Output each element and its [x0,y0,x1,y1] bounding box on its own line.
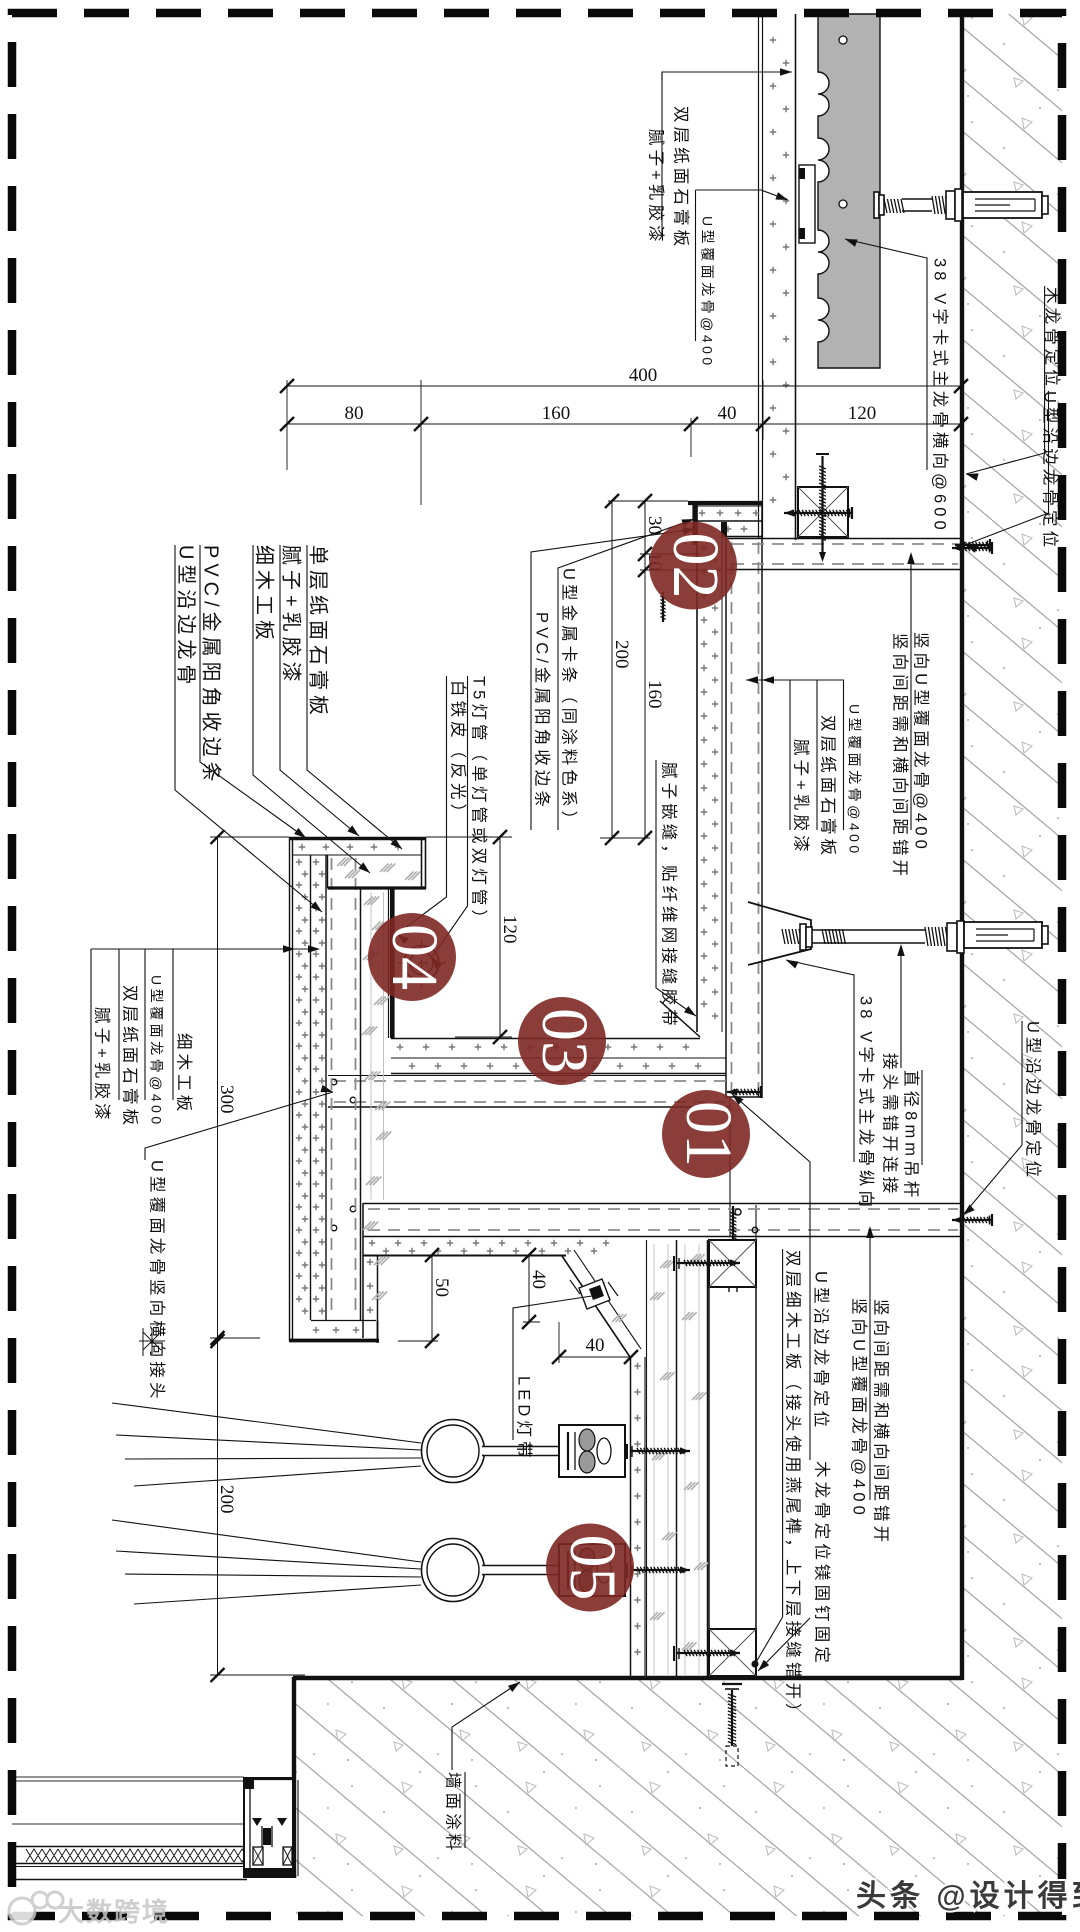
wood block lower (X-braced) [709,1629,756,1676]
svg-text:02: 02 [659,533,732,599]
svg-text:01: 01 [672,1101,745,1167]
label fan top-left: U-channel edge [175,545,322,912]
spotlight 2 screw [626,1563,628,1578]
step cap - thick edge (U metal trim) [688,501,763,505]
long screw from 01 band into block [732,1206,734,1284]
svg-text:双层纸面石膏板: 双层纸面石膏板 [121,985,141,1129]
LED strip fixture on chamfer [579,1279,610,1309]
upper horizontal furring band [726,538,962,540]
svg-text:木龙骨定位镁固钉固定: 木龙骨定位镁固钉固定 [813,1461,832,1667]
svg-text:PVC/金属阳角收边条: PVC/金属阳角收边条 [200,545,223,787]
svg-text:双层细木工板（接头使用燕尾榫，上下层接缝错开）: 双层细木工板（接头使用燕尾榫，上下层接缝错开） [784,1250,803,1724]
light rays 2 [112,1520,421,1562]
svg-text:T5灯管（单灯管或双灯管）: T5灯管（单灯管或双灯管） [470,676,489,930]
adjustable spotlight 1 [422,1420,485,1483]
label fan: single gypsum board [307,545,402,849]
svg-text:U型覆面龙骨@400: U型覆面龙骨@400 [700,216,716,369]
label: LED strip [513,1296,592,1432]
fascia gypsum layers [310,855,312,1320]
svg-text:头条 @设计得到: 头条 @设计得到 [856,1880,1080,1913]
label: 38 V-type carrier @600 [845,239,927,470]
svg-text:细木工板: 细木工板 [253,545,276,645]
lower box wood boards [646,1240,648,1678]
fascia top cap [289,837,426,841]
svg-text:PVC/金属阳角收边条: PVC/金属阳角收边条 [533,612,552,811]
window mullion profile [244,1778,293,1877]
svg-text:竖向U型覆面龙骨@400: 竖向U型覆面龙骨@400 [850,1298,869,1519]
bottom wall left edge line [292,1677,296,1878]
dimension 300 (fascia height) [217,837,219,1338]
V-clamp hanger bracket [748,902,811,965]
38 carrier channel - gray strip with notched edge [818,14,880,368]
hanger rod 8mm with nuts [782,929,802,944]
svg-text:白铁皮（反光）: 白铁皮（反光） [449,680,468,824]
furring band under cove bottom [328,1075,726,1077]
vertical screw through step block [816,453,829,455]
svg-text:大数跨境: 大数跨境 [58,1897,170,1927]
svg-text:直径8mm吊杆: 直径8mm吊杆 [902,1070,921,1201]
svg-text:竖向间距需和横向间距错开: 竖向间距需和横向间距错开 [891,633,910,880]
svg-text:U型金属卡条（同涂料色系）: U型金属卡条（同涂料色系） [560,568,579,831]
svg-text:LED灯带: LED灯带 [515,1376,534,1462]
dimension line 80/160/40/120 [287,423,961,425]
label fan: putty+latex paint [280,545,359,836]
svg-text:竖向U型覆面龙骨@400: 竖向U型覆面龙骨@400 [912,632,931,853]
expansion anchor (mid, into wall) [964,922,1042,948]
svg-text:墙面涂料: 墙面涂料 [444,1772,463,1854]
cove right wall gypsum boards [696,503,698,1032]
cove bottom gypsum boards [391,1038,700,1040]
label: wall paint [452,1682,520,1770]
label: putty joint + fiber mesh tape [656,760,696,1016]
spotlight 1 mounting bracket [559,1425,625,1477]
small screw under step cap [662,592,664,622]
svg-text:U型沿边龙骨: U型沿边龙骨 [175,545,198,689]
dimension line 400 (overall top) [287,385,961,387]
label fan: blockboard [253,545,370,873]
vertical joint lines at cove bottom right [729,1098,731,1237]
svg-text:200: 200 [216,1485,237,1514]
svg-text:U型沿边龙骨定位: U型沿边龙骨定位 [1041,391,1060,551]
window head lines [12,1776,244,1778]
svg-text:120: 120 [848,403,877,424]
screw fixing upper band to wall [952,547,992,549]
screw at cove wall bottom corner [727,1091,761,1093]
callout circle 02 [649,522,737,610]
svg-text:双层纸面石膏板: 双层纸面石膏板 [819,715,839,859]
label: U edge channel positioning (mid right) [1021,1021,1023,1145]
labels: fascia finish group (left) [91,948,318,950]
reflective metal sheet (white iron) [390,889,395,1038]
svg-text:竖向间距需和横向间距错开: 竖向间距需和横向间距错开 [872,1299,891,1546]
svg-text:03: 03 [528,1008,601,1074]
dimension extension lines (top) [286,380,288,470]
svg-text:300: 300 [216,1085,237,1114]
label: U furring channel @400 (top) [696,190,789,200]
svg-text:腻子+乳胶漆: 腻子+乳胶漆 [280,545,303,687]
screws into blocks [673,1256,675,1271]
labels: vertical U furring (01 band) [869,1232,871,1500]
label: double gypsum + putty (top) [662,72,792,80]
label: U furring vertical/horizontal joints (left) [145,1092,333,1160]
svg-text:120: 120 [499,915,520,944]
label: 8mm hanger rod + carrier longitudinal [786,960,854,1162]
label: wood grounds positioning (top right) [966,286,1045,474]
callout circle 05 [546,1524,634,1612]
svg-text:腻子+乳胶漆: 腻子+乳胶漆 [792,739,811,856]
cove wall furring dashes [731,542,733,1094]
svg-text:U型覆面龙骨@400: U型覆面龙骨@400 [149,975,165,1128]
T5 lamp symbol [404,946,439,981]
svg-text:U型沿边龙骨定位: U型沿边龙骨定位 [1024,1021,1043,1181]
dimension 40 (vertical at chamfer) [528,1255,530,1322]
mitred corner of cove bottom [660,1001,700,1037]
holes in carrier strip [839,36,847,44]
svg-text:40: 40 [528,1270,549,1289]
lamp star symbol [139,1328,165,1354]
wood block (X-braced) at step [798,487,848,537]
dimension 200 (below fascia) [217,1341,219,1675]
callout circle 03 [518,997,606,1085]
svg-text:腻子+乳胶漆: 腻子+乳胶漆 [647,129,666,246]
svg-text:40: 40 [586,1335,605,1356]
svg-text:腻子+乳胶漆: 腻子+乳胶漆 [93,1007,112,1124]
light rays 1 [112,1403,421,1443]
gypsum board under 01 band [363,1255,566,1257]
fascia outer face double line [289,837,291,1341]
svg-text:细木工板: 细木工板 [175,1033,194,1115]
svg-text:接头需错开连接: 接头需错开连接 [881,1053,900,1197]
label: U edge channel positioning (top right) [965,391,1049,545]
expansion anchor bolt (top, into wall) [884,199,904,213]
lower box gypsum band [630,1357,632,1678]
svg-text:400: 400 [629,365,658,386]
svg-text:160: 160 [644,680,665,709]
extension lines for step dims [608,500,688,502]
dimension 120 (cove depth) [499,837,501,1037]
svg-text:50: 50 [431,1278,452,1297]
callout circle 01 [662,1090,750,1178]
bottom wall top edge line [293,1676,963,1680]
spotlight 1 screw [626,1444,628,1459]
spotlight 2 mounting bracket [559,1544,625,1596]
svg-text:U型沿边龙骨定位: U型沿边龙骨定位 [812,1271,831,1431]
svg-text:单层纸面石膏板: 单层纸面石膏板 [307,545,330,720]
fascia wood board [360,889,362,1320]
concrete wall hatch (right vertical band and bottom wall) [296,14,1062,1916]
svg-text:腻子嵌缝，贴纤维网接缝胶带: 腻子嵌缝，贴纤维网接缝胶带 [660,762,679,1030]
vertical dimension chain 30/10/160 [644,501,646,838]
label: U edge channel + wood ground fixing [732,1094,810,1460]
fascia furring dashes [331,858,333,1318]
fascia top wood band [327,855,329,888]
svg-text:双层纸面石膏板: 双层纸面石膏板 [672,106,692,250]
vertical dimension chain 200 (step) [611,501,613,838]
trough lip at left end of 01 band [362,1203,364,1338]
label fan: PVC corner trim [200,545,306,838]
adjustable spotlight 2 [422,1539,485,1602]
svg-text:80: 80 [345,403,364,424]
label: PVC corner trim (mid) [531,529,695,830]
svg-text:160: 160 [542,403,571,424]
fascia bottom cap [311,1320,376,1322]
callout circle 04 [368,913,456,1001]
dimension 40 (horizontal below chamfer) [559,1356,631,1358]
label: white iron reflector [397,676,447,934]
label: U metal clip strip [558,519,694,830]
watermark bottom-left [9,1892,170,1927]
step gypsum bands [694,505,762,507]
window glazing (insulated glass) [12,1846,247,1848]
labels: vertical U furring (upper band) [910,560,912,830]
01 furring band (main ceiling) [363,1203,962,1205]
svg-text:200: 200 [611,640,632,669]
svg-text:U型覆面龙骨@400: U型覆面龙骨@400 [847,704,863,857]
svg-text:40: 40 [718,403,737,424]
lower box blocking verticals [708,1240,710,1678]
svg-text:04: 04 [378,924,451,990]
right wall face line [960,14,964,1680]
screw at wall for edge channel [955,544,990,546]
svg-text:38 V字卡式主龙骨横向@600: 38 V字卡式主龙骨横向@600 [931,258,950,534]
horizontal screw into step block [784,512,852,514]
svg-text:U型覆面龙骨竖向横向接头: U型覆面龙骨竖向横向接头 [148,1160,167,1403]
labels: cove wall finish group [746,679,844,681]
U-clip connecting furring to carrier [799,165,815,243]
wood block upper (X-braced) [709,1240,756,1287]
chamfer board of lower box [562,1256,630,1357]
label: T5 lamp [432,676,468,957]
label: double blockboard dovetail [782,1249,784,1617]
screw fixing 01 band to wall [952,1219,992,1221]
svg-text:05: 05 [556,1535,629,1601]
cove wall bottom cap [726,1096,762,1098]
dimension 50 (lip height) [431,1255,433,1341]
svg-text:38 V字卡式主龙骨纵向: 38 V字卡式主龙骨纵向 [857,996,876,1211]
floor anchor below lower box [722,1683,742,1685]
top gypsum wall boards (x 758-797) [758,14,760,538]
